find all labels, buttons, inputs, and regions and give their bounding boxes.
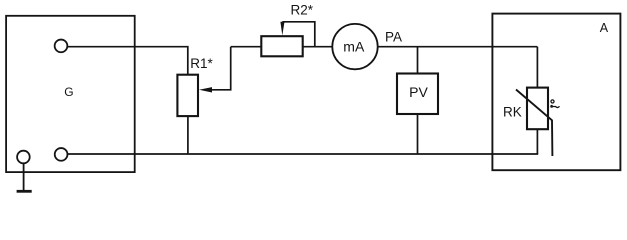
R1 wiper arrow: [199, 47, 231, 93]
wire: RK bottom lead to bus: [536, 129, 538, 154]
rheostat R2: [261, 36, 302, 56]
wire: G top terminal to R1 top: [67, 47, 188, 75]
terminal top of G: [55, 40, 68, 53]
wire: ammeter to RK top corner: [378, 46, 538, 48]
wire: PV bottom lead to bus: [417, 114, 419, 154]
svg-text:R2*: R2*: [291, 2, 314, 17]
svg-text:RK: RK: [503, 104, 522, 119]
svg-text:G: G: [64, 85, 73, 99]
label t°: [550, 100, 559, 108]
apparatus box A: [492, 14, 620, 171]
wire: junction down to PV: [417, 47, 419, 74]
wire: R2 right terminal to ammeter: [303, 46, 333, 48]
terminal bottom-right of G: [55, 148, 68, 161]
ground: [17, 163, 32, 191]
svg-text:PA: PA: [385, 29, 402, 44]
svg-text:A: A: [600, 21, 609, 35]
generator G box: [6, 16, 135, 172]
bottom bus wire: [67, 153, 538, 155]
ammeter PA (mA meter): [332, 24, 377, 69]
wire: top wire down to RK: [536, 47, 538, 88]
voltmeter PV: [397, 74, 438, 115]
svg-text:PV: PV: [409, 84, 428, 100]
resistor R1: [177, 75, 198, 116]
svg-text:mA: mA: [343, 39, 365, 55]
terminal ground of G: [17, 151, 30, 164]
R2 wiper arrow: [280, 22, 314, 47]
wire: wiper to R2 left terminal: [231, 46, 262, 48]
wire: R1 bottom lead to bus: [187, 116, 189, 154]
thermistor RK: [516, 88, 552, 156]
svg-text:R1*: R1*: [190, 56, 213, 71]
